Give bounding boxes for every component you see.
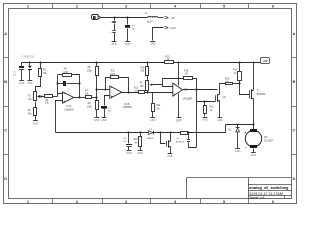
svg-text:GND: GND (94, 119, 100, 122)
resistor R10 on rail (165, 56, 174, 63)
svg-text:2: 2 (60, 92, 61, 94)
resistor R1 (39, 63, 48, 77)
svg-text:GND: GND (150, 119, 156, 122)
inductor L1 (145, 12, 158, 24)
wire Q2 source to ground (219, 101, 221, 118)
diode D3 flyback (228, 125, 239, 149)
wire main rail right (174, 62, 261, 64)
transistor Q2 (216, 94, 227, 102)
svg-text:1M: 1M (185, 73, 188, 75)
resistor R17 (177, 121, 188, 134)
wire R1 to pot R2 (36, 77, 41, 92)
wire gate node to T1 (240, 84, 250, 95)
capacitor C2 feedback (56, 81, 80, 93)
svg-text:A: A (293, 31, 296, 36)
svg-text:7: 7 (123, 90, 124, 92)
svg-text:GND: GND (27, 82, 33, 85)
svg-text:GND: GND (101, 119, 107, 122)
junction column R7 (95, 96, 97, 98)
resistor R14 (152, 93, 162, 118)
svg-text:BSP296: BSP296 (257, 94, 266, 96)
junction op2 output feedback (127, 91, 129, 93)
wire op1 noninv to bus (56, 101, 63, 133)
net flag GND arrow (164, 26, 176, 30)
svg-text:15uH: 15uH (147, 21, 153, 24)
ground below C8 (125, 42, 131, 46)
svg-text:LM358D: LM358D (123, 106, 132, 109)
ground below C4 (101, 118, 107, 123)
title block text sheet (249, 196, 265, 200)
op-amp IC2 (173, 83, 183, 96)
resistor R8 (87, 63, 99, 76)
svg-text:+9V: +9V (170, 16, 175, 20)
resistor R9 (87, 101, 99, 118)
svg-text:R15: R15 (209, 107, 214, 109)
ground below IC2 (176, 118, 182, 123)
wire R13 to pot P1 (147, 76, 149, 81)
pin numbers IC1B (107, 88, 124, 98)
resistor R19 (233, 63, 242, 84)
wire L1 to flag (158, 17, 164, 19)
svg-text:GND: GND (251, 154, 257, 157)
label IC1B (123, 103, 132, 109)
ground below R14 (150, 118, 156, 123)
svg-text:100k: 100k (110, 74, 116, 76)
resistor R4 (42, 95, 58, 105)
svg-text:GND: GND (167, 155, 173, 158)
junction rail at R13 (146, 61, 148, 63)
junction op2 feedback tap (104, 88, 106, 90)
wire pot R2 to R3 (35, 102, 37, 108)
svg-text:B: B (293, 79, 296, 84)
connector X1 jack (92, 15, 101, 20)
svg-text:GND: GND (150, 43, 156, 46)
svg-text:LTV5R-CL0: LTV5R-CL0 (22, 56, 35, 58)
wire main rail left (22, 62, 165, 64)
svg-text:B: B (4, 79, 7, 84)
wire bottom bus left (56, 132, 149, 134)
ground below R9 (94, 118, 100, 123)
ground below C7 (111, 42, 117, 46)
resistor R12 (134, 87, 173, 93)
junction C5 top (127, 131, 129, 133)
svg-text:GND: GND (235, 150, 241, 153)
junction signal pot (146, 91, 148, 93)
svg-text:R16: R16 (134, 139, 139, 141)
wire R8 to R9 column (96, 76, 98, 101)
svg-text:DC-MOT: DC-MOT (264, 140, 274, 143)
resistor R5 feedback (58, 69, 80, 98)
junction at C8 top (126, 16, 128, 18)
junction T1 gate node (238, 82, 240, 84)
junction C9 top (187, 131, 189, 133)
wire R17 to flyback (188, 125, 226, 133)
op-amp IC1B (110, 86, 122, 98)
resistor R3 (28, 108, 37, 116)
diode D2 (147, 129, 154, 140)
potentiometer P1 (140, 81, 153, 91)
svg-text:D: D (4, 176, 7, 181)
wire pot P1 bottom to signal (147, 91, 149, 93)
svg-text:R14: R14 (156, 105, 161, 107)
junction op3 output fb (195, 88, 197, 90)
ground below C5 (126, 151, 132, 156)
svg-text:R19: R19 (233, 70, 238, 72)
junction rail at R19 (238, 61, 240, 63)
resistor R11 feedback (106, 71, 129, 93)
resistor R7 (85, 90, 97, 98)
junction R16 top (139, 131, 141, 133)
wire op1 output (74, 97, 86, 99)
resistor R16 (134, 133, 142, 151)
wire op1 feedback vertical left (57, 75, 59, 94)
svg-text:C: C (4, 128, 7, 133)
ground below R16 (137, 151, 143, 156)
title block box (187, 178, 292, 200)
wire T1 source to motor (253, 99, 255, 130)
resistor R15 (204, 102, 215, 117)
svg-text:LM358P: LM358P (183, 97, 193, 100)
svg-text:3: 3 (170, 93, 171, 95)
wire IC2 Vplus pin (178, 63, 180, 86)
svg-text:1: 1 (75, 95, 76, 97)
wire R3 to ground (35, 116, 37, 121)
junction rail at D1 (28, 61, 30, 63)
ground below C1 (19, 81, 25, 85)
resistor R20 (225, 78, 240, 84)
svg-text:D: D (293, 176, 296, 181)
svg-text:GND: GND (137, 152, 143, 155)
wire Q1 source to ground (170, 147, 172, 154)
photodiode D1 (28, 63, 32, 81)
frame section ticks (4, 4, 297, 204)
frame outer border (4, 4, 297, 204)
wire op3 output (183, 89, 218, 91)
wire Q2 drain up (220, 84, 226, 95)
label D1 part number (22, 56, 35, 58)
resistor R13 (140, 63, 149, 76)
svg-text:GND: GND (170, 26, 176, 30)
op-amp IC1A (63, 92, 74, 103)
frame row letters (4, 31, 295, 181)
svg-text:BSS138: BSS138 (176, 141, 185, 143)
svg-text:R18: R18 (184, 70, 189, 72)
capacitor C4 (101, 106, 112, 118)
wire flyback to motor (226, 124, 254, 126)
junction column minus input (95, 88, 97, 90)
pin numbers IC1A (60, 92, 77, 102)
svg-text:Sheet: 1/1: Sheet: 1/1 (249, 196, 265, 200)
svg-text:analog_v6_switching: analog_v6_switching (249, 185, 289, 190)
wire D2 to Q1 (154, 132, 181, 134)
title block text date (249, 192, 283, 196)
wire op2 output (122, 92, 139, 94)
junction D3 top (236, 123, 238, 125)
svg-text:6: 6 (107, 88, 108, 90)
svg-text:1M: 1M (134, 142, 137, 144)
wire op3 output to C9 loop (196, 90, 198, 148)
svg-text:GND: GND (125, 43, 131, 46)
junction Q1 gate branch (159, 131, 161, 133)
ground below R15 (202, 118, 208, 122)
svg-text:C: C (293, 128, 296, 133)
junction rail at IC2 V+ (177, 61, 179, 63)
svg-text:GND: GND (111, 43, 117, 46)
svg-text:100k: 100k (87, 106, 93, 108)
ground below Q2 (217, 118, 223, 123)
capacitor C6 (110, 18, 116, 31)
svg-text:+9V: +9V (262, 59, 267, 63)
capacitor C5 (123, 133, 132, 151)
svg-text:+: + (244, 131, 246, 135)
wire jack to L1 (101, 17, 148, 19)
motor M1 (244, 129, 274, 149)
frame inner border (9, 9, 292, 199)
ground below flag row (150, 42, 156, 46)
wire motor to ground (253, 149, 255, 153)
svg-text:GND: GND (33, 122, 39, 125)
ground below D1 (27, 81, 33, 85)
wire op2 noninv to C4 (105, 96, 110, 106)
pin numbers IC2 (170, 84, 185, 95)
wire gnd flag row (153, 28, 164, 41)
svg-text:GND: GND (202, 119, 208, 122)
wire wiper to op3 inverting (153, 85, 173, 87)
svg-text:LM358D: LM358D (64, 108, 73, 111)
svg-text:GND: GND (217, 119, 223, 122)
junction rail at T1 drain (252, 61, 254, 63)
junction rail at R1 (39, 61, 41, 63)
wire T1 drain to rail (253, 63, 255, 91)
label IC2 (183, 88, 193, 100)
svg-text:GND: GND (126, 152, 132, 155)
wire op1 inverting input (58, 94, 63, 97)
junction op1 output feedback (78, 96, 80, 98)
svg-text:2: 2 (170, 84, 171, 86)
wire IC2 Vminus pin to ground (178, 94, 180, 118)
ground below D3 (235, 149, 241, 153)
title block text title (249, 185, 289, 190)
svg-text:100k: 100k (87, 70, 93, 72)
capacitor C1 (13, 63, 24, 81)
frame column numbers (27, 3, 275, 204)
svg-text:R12: R12 (134, 87, 139, 89)
capacitor C8 electrolytic (125, 18, 136, 42)
svg-text:A: A (4, 31, 7, 36)
ground below Q1 (167, 154, 173, 158)
transistor T1 BSP296 (250, 89, 266, 99)
potentiometer R2 (28, 92, 41, 101)
junction Q1 drain (169, 131, 171, 133)
svg-text:BAT48: BAT48 (147, 137, 154, 140)
resistor R18 hysteresis (163, 70, 197, 89)
capacitor C9 timing (187, 133, 197, 148)
capacitor C7 (110, 31, 116, 42)
junction rail at R8 (95, 61, 97, 63)
label IC1A (64, 105, 73, 111)
svg-text:GND: GND (19, 82, 25, 85)
supply flag +9V box (261, 58, 270, 64)
wire Q1 gate (161, 133, 166, 144)
wire op2 inverting input (97, 89, 110, 91)
ground below motor (251, 153, 257, 157)
junction R15 gate (203, 100, 205, 102)
ground below R3 (33, 121, 39, 126)
junction wiper R2 (40, 95, 42, 97)
svg-text:R13: R13 (140, 67, 145, 69)
wire op3 output to Q2 gate (197, 101, 216, 103)
junction motor flyback node (252, 123, 254, 125)
junction at C6 top (113, 16, 115, 18)
net flag +9V arrow (164, 16, 175, 20)
svg-text:1M0: 1M0 (63, 72, 68, 74)
transistor Q1 BSS138 (167, 133, 185, 148)
